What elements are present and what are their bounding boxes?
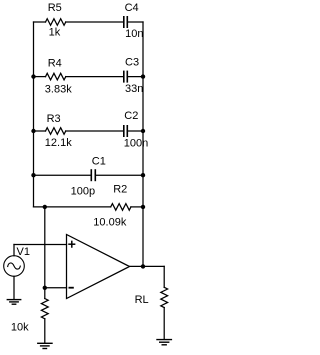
svg-text:R5: R5 [48,2,62,14]
wire: R2 row from left rail corner to R2 [34,206,111,208]
svg-text:V1: V1 [17,246,30,258]
svg-text:C2: C2 [124,110,138,122]
wire: output from apex through node to RL corner [130,265,165,267]
wire: row3 left lead [34,130,46,132]
wire: row2 between R4 and C3 [66,76,123,78]
resistor R5 [46,19,66,26]
svg-text:C4: C4 [125,2,139,14]
svg-text:C1: C1 [92,155,106,167]
svg-text:R2: R2 [113,183,127,195]
junction dot inverting input [43,286,47,290]
wire: left rail x=33.5 from row1 to R2 row [33,22,35,207]
wire: row1 between R5 and C4 [66,21,123,23]
wire: R2 to right rail [131,206,143,208]
capacitor C1 [91,170,95,180]
capacitor C2 [124,126,128,136]
svg-text:3.83k: 3.83k [45,84,72,96]
wire: row1 C4 to right rail [128,21,143,23]
op-amp U1 triangle [67,235,130,299]
svg-text:12.1k: 12.1k [45,137,72,149]
wire: V1 top lead [13,245,15,256]
svg-text:R4: R4 [48,58,62,70]
resistor R4 [46,73,66,80]
svg-text:RL: RL [135,294,149,306]
svg-text:C3: C3 [125,56,139,68]
svg-text:1k: 1k [49,27,61,39]
wire: row4 left segment to C1 [34,174,92,176]
wire: V1 bottom lead [13,276,15,299]
svg-text:10.09k: 10.09k [93,216,127,228]
junction dot row2 right [141,74,145,78]
wire: from inverting node down to 10k [44,288,46,299]
wire: RL top lead vertical [163,266,165,287]
svg-text:10n: 10n [125,28,143,40]
junction dot R2 row right [141,205,145,209]
junction dot row3 right [141,129,145,133]
junction dot row2 left [31,74,35,78]
junction dot R2 row left (feedback tap) [43,205,47,209]
svg-text:R3: R3 [47,113,61,125]
svg-text:10k: 10k [11,321,29,333]
capacitor C4 [124,17,128,27]
ground under V1 [7,300,20,305]
wire: row3 C2 to right rail [128,130,143,132]
source V1 (AC) [4,256,25,277]
wire: non-inverting input from V1 to op-amp [14,244,67,246]
ground under RL [157,340,171,345]
wire: right rail x=143 from row1 down to output node [142,22,144,266]
svg-text:100n: 100n [124,138,148,150]
resistor R2 [111,204,131,211]
junction dot row4 right [141,173,145,177]
resistor RL [161,287,168,307]
resistor 10k [41,299,48,319]
resistor R3 [46,128,66,135]
op-amp plus mark [69,241,75,247]
wire: row3 between R3 and C2 [66,130,123,132]
wire: RL bottom lead [163,308,165,340]
wire: feedback vertical from R2 row to inverting input [44,207,46,288]
wire: inverting input horizontal [45,287,67,289]
wire: row2 left lead [34,76,46,78]
wire: row4 C1 to right rail [96,174,143,176]
wire: 10k bottom lead [44,319,46,343]
wire: row1 left lead (corner to R5) [34,21,46,23]
ground under 10k [38,343,52,348]
svg-text:33n: 33n [125,83,143,95]
capacitor C3 [124,71,128,81]
op-amp minus mark [69,287,73,289]
wire: row2 C3 to right rail [128,76,143,78]
junction dot output node [141,264,145,268]
junction dot row4 left [31,173,35,177]
junction dot row3 left [31,129,35,133]
svg-text:100p: 100p [71,185,95,197]
